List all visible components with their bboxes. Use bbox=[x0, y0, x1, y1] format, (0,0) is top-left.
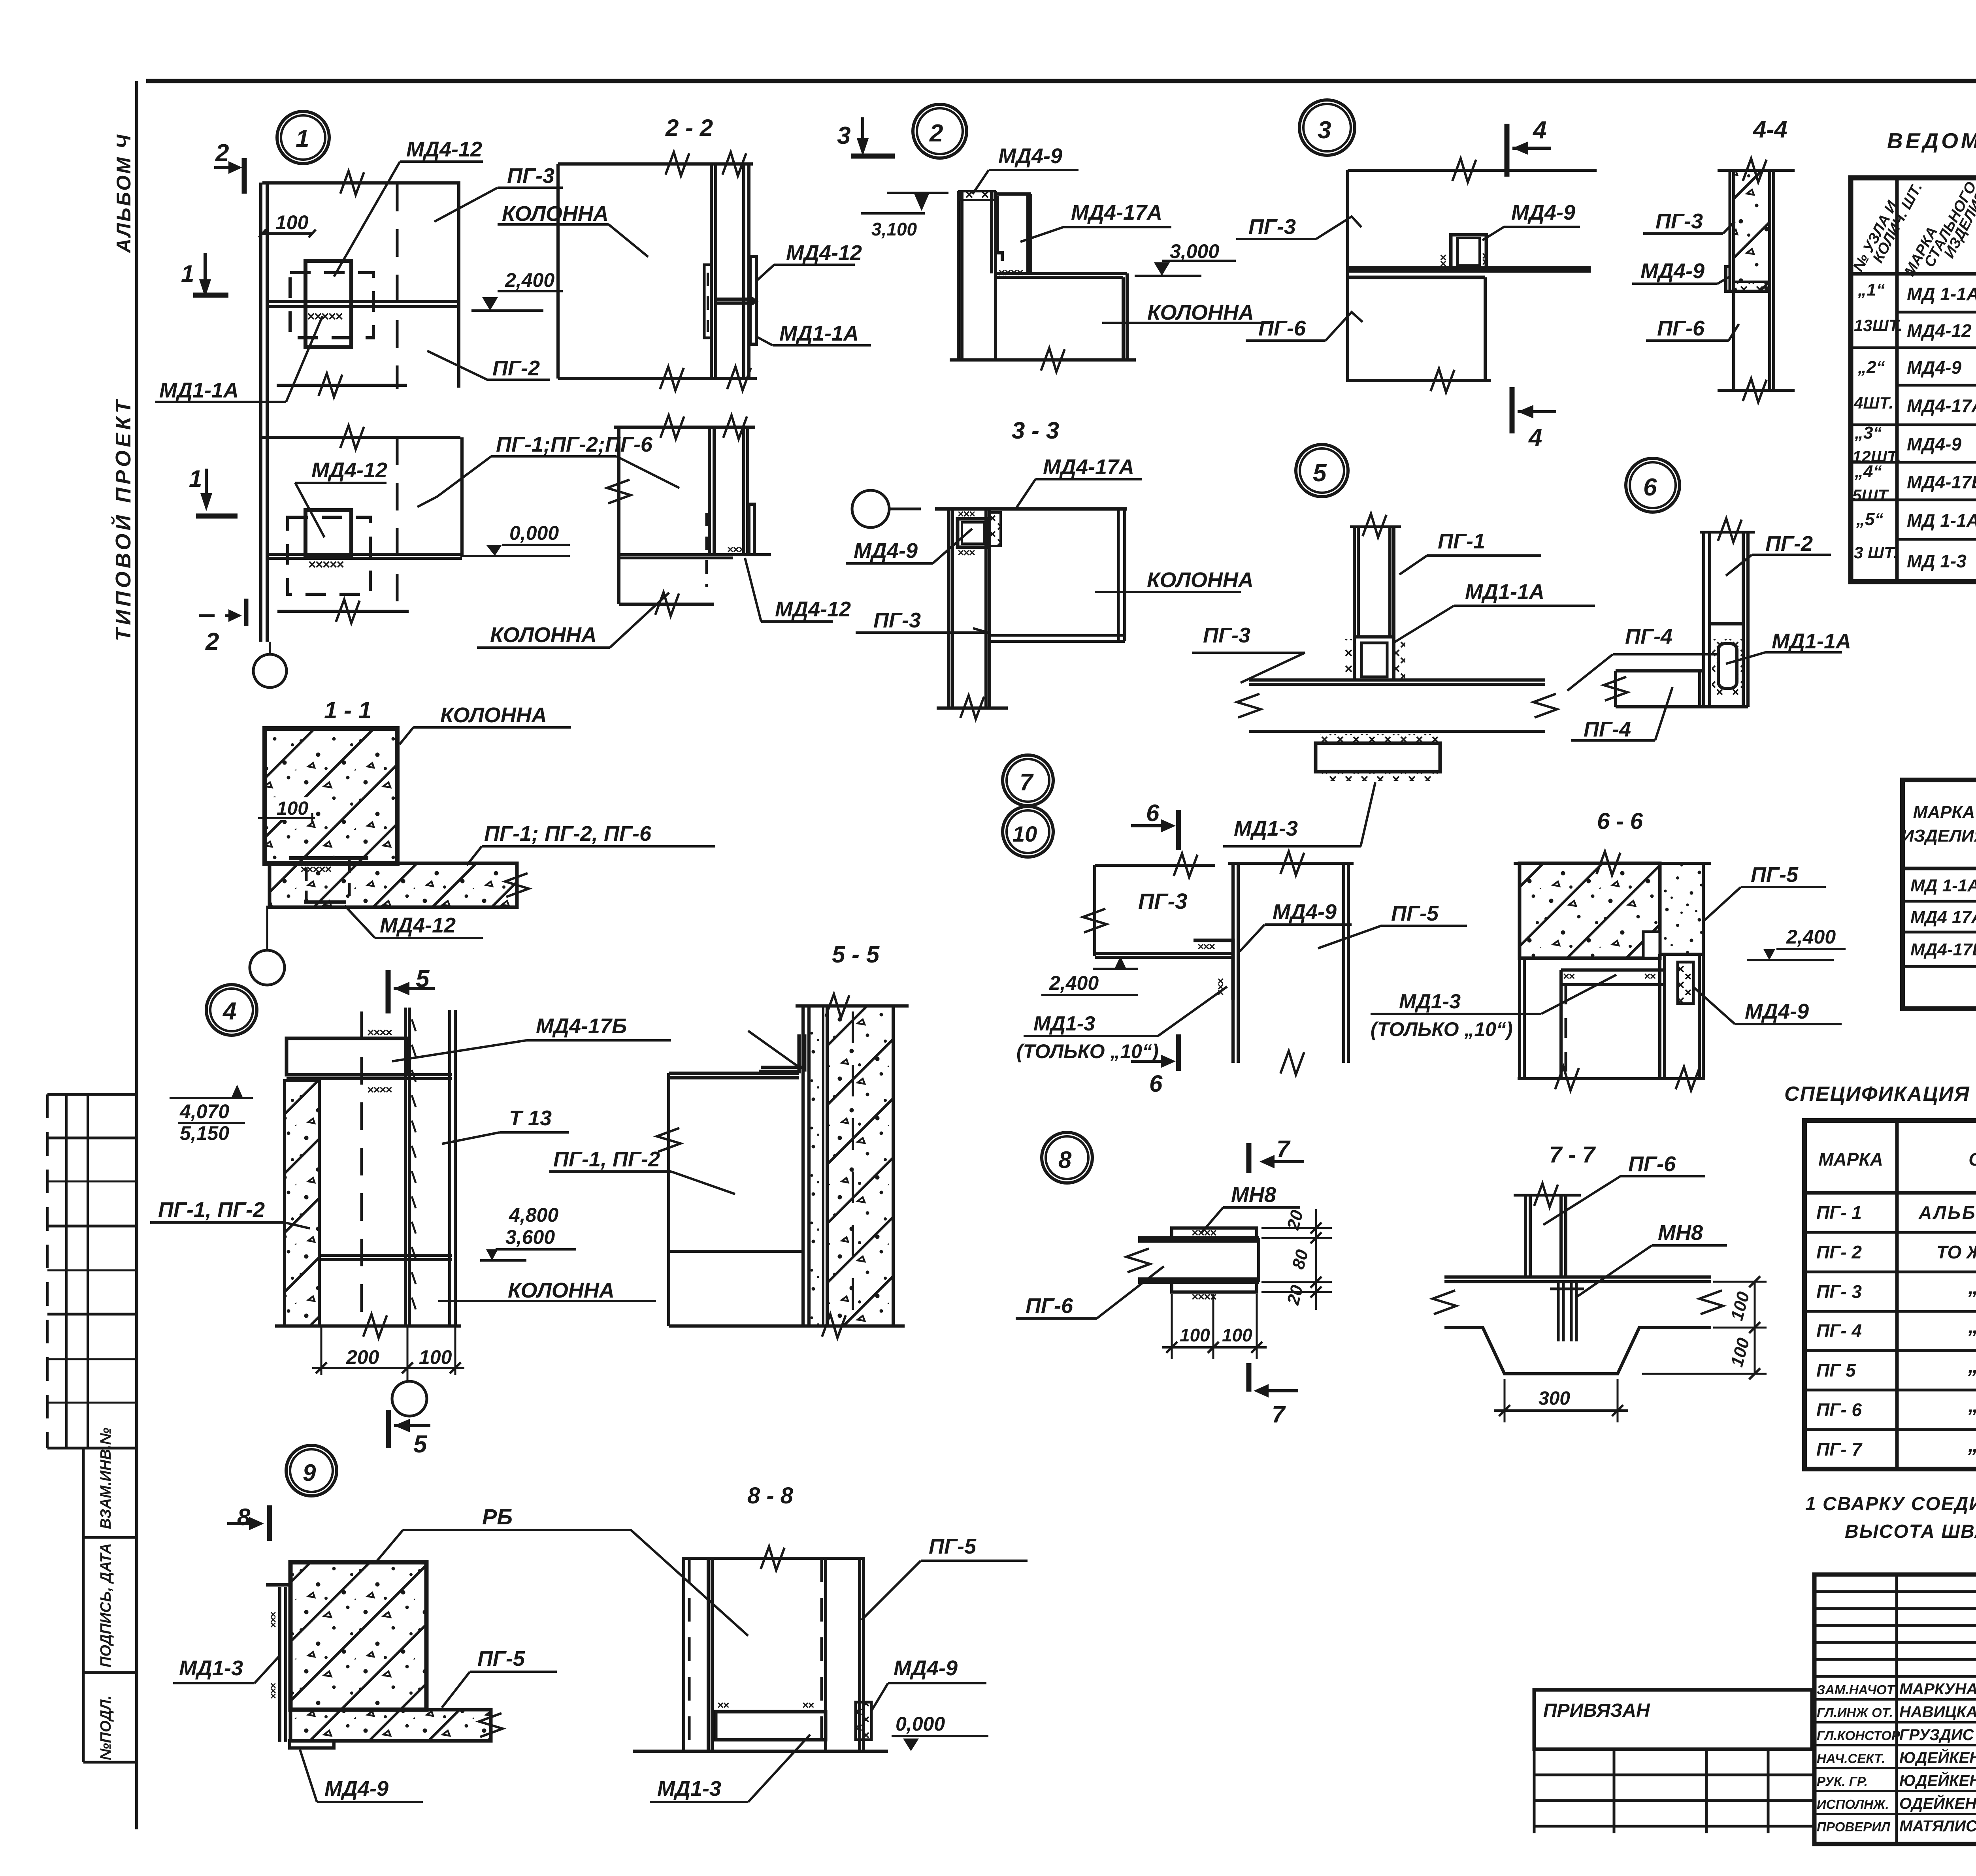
detail 3 joint mid lines bbox=[1348, 266, 1591, 269]
svg-text:4: 4 bbox=[1532, 117, 1546, 144]
svg-text:ИЗДЕЛИЯ: ИЗДЕЛИЯ bbox=[1901, 826, 1976, 846]
svg-text:МД4-12: МД4-12 bbox=[406, 137, 482, 161]
svg-text:„: „ bbox=[1968, 1354, 1976, 1377]
svg-text:ОДЕЙКЕНЕ: ОДЕЙКЕНЕ bbox=[1899, 1794, 1976, 1812]
svg-text:МАРКУНАС: МАРКУНАС bbox=[1899, 1680, 1976, 1698]
svg-text:8 - 8: 8 - 8 bbox=[747, 1483, 794, 1509]
detail 5 panel top break bbox=[1350, 526, 1401, 528]
svg-text:5: 5 bbox=[1313, 460, 1327, 487]
svg-text:×××: ××× bbox=[267, 1683, 279, 1699]
6-6 concrete block (hatched) bbox=[1520, 863, 1660, 958]
svg-text:МД4-17А: МД4-17А bbox=[1907, 396, 1976, 416]
svg-text:КОЛОННА: КОЛОННА bbox=[1147, 301, 1254, 324]
svg-text:МАРКА: МАРКА bbox=[1913, 802, 1975, 822]
detail 1 wall axis (dashed) bbox=[396, 184, 399, 389]
svg-text:ПГ- 7: ПГ- 7 bbox=[1816, 1439, 1863, 1460]
detail 9 node circle bbox=[286, 1445, 337, 1496]
detail 5 underslab channel МД1-3 bbox=[1320, 734, 1439, 743]
svg-text:6: 6 bbox=[1643, 474, 1657, 501]
svg-text:ПГ-1; ПГ-2, ПГ-6: ПГ-1; ПГ-2, ПГ-6 bbox=[484, 822, 652, 846]
svg-text:8: 8 bbox=[1058, 1147, 1072, 1173]
svg-text:ПГ-3: ПГ-3 bbox=[1138, 889, 1187, 914]
detail 9 concrete block (hatched) bbox=[290, 1562, 426, 1710]
2-2 wall top edge bbox=[558, 162, 753, 166]
svg-text:1 - 1: 1 - 1 bbox=[324, 697, 371, 723]
detail 5 slab left break bbox=[1237, 694, 1261, 718]
7-7 slab top lines bbox=[1444, 1275, 1711, 1279]
detail 1 panel bottom edge bbox=[277, 384, 407, 387]
4-4 wall top line bbox=[1718, 169, 1795, 172]
detail 4 top beam bbox=[287, 1038, 407, 1075]
svg-text:КОЛОННА: КОЛОННА bbox=[508, 1279, 615, 1302]
table 2 row lines bbox=[1902, 900, 1976, 903]
svg-text:10: 10 bbox=[1013, 821, 1037, 846]
detail 1 lower panel right edge bbox=[460, 437, 464, 557]
svg-text:МД4-12: МД4-12 bbox=[380, 914, 456, 937]
table 1 row lines bbox=[1897, 311, 1976, 314]
svg-text:ПГ-4: ПГ-4 bbox=[1584, 718, 1631, 741]
svg-text:ТО ЖЕ: ТО ЖЕ bbox=[1936, 1242, 1976, 1262]
detail 1 fixing plate hidden outline (dashed) bbox=[290, 273, 373, 338]
svg-text:МД4-12: МД4-12 bbox=[775, 597, 851, 621]
2-2 wall left edge bbox=[556, 164, 560, 379]
8-8 ground line bbox=[633, 1750, 888, 1753]
svg-text:4-4: 4-4 bbox=[1753, 116, 1787, 143]
svg-text:МД 1-1А: МД 1-1А bbox=[1907, 284, 1976, 304]
svg-text:МД1-1А: МД1-1А bbox=[1772, 629, 1851, 653]
6-6 top line bbox=[1514, 862, 1711, 865]
7-7 anchor bars МН8 bbox=[1557, 1282, 1560, 1341]
3-3 right bracket with weld bbox=[990, 512, 1001, 546]
svg-text:ПГ-1, ПГ-2: ПГ-1, ПГ-2 bbox=[553, 1147, 660, 1171]
svg-text:ПГ-3: ПГ-3 bbox=[1655, 209, 1703, 233]
5-5 panel top edge (double) bbox=[669, 1072, 799, 1075]
2-2 lower: floor line bbox=[620, 553, 771, 556]
svg-text:МД1-3: МД1-3 bbox=[1399, 990, 1461, 1013]
svg-text:ВЗАМ.ИНВ.№: ВЗАМ.ИНВ.№ bbox=[98, 1428, 114, 1529]
svg-text:МД4-12: МД4-12 bbox=[1907, 320, 1972, 341]
svg-text:НАЧ.СЕКТ.: НАЧ.СЕКТ. bbox=[1817, 1751, 1885, 1766]
detail 10 node circle bbox=[1003, 806, 1053, 857]
svg-text:2 - 2: 2 - 2 bbox=[665, 115, 713, 141]
svg-text:3 - 3: 3 - 3 bbox=[1012, 417, 1059, 444]
svg-text:7 - 7: 7 - 7 bbox=[1549, 1142, 1596, 1168]
detail 3 wall left edge bbox=[1346, 170, 1349, 382]
4-4 bottom line bbox=[1718, 389, 1795, 392]
svg-text:ПГ-2: ПГ-2 bbox=[492, 356, 540, 380]
8-8 МД4-9 right bracket bbox=[856, 1702, 871, 1740]
attachment grid cells bbox=[1534, 1748, 1814, 1751]
svg-text:АЛЬБОМ II: АЛЬБОМ II bbox=[1918, 1202, 1976, 1223]
detail 5 slab right break bbox=[1533, 694, 1557, 718]
svg-text:КОЛОННА: КОЛОННА bbox=[490, 623, 597, 647]
svg-text:9: 9 bbox=[303, 1460, 316, 1486]
8-8 panel top line bbox=[682, 1557, 865, 1560]
detail 1 lower joint mid line (double) bbox=[267, 553, 462, 556]
svg-text:МД1-1А: МД1-1А bbox=[779, 322, 859, 345]
svg-text:МАТЯЛИС: МАТЯЛИС bbox=[1899, 1818, 1976, 1835]
svg-text:5ШТ.: 5ШТ. bbox=[1852, 486, 1892, 505]
2-2 tee connection bar bbox=[716, 298, 754, 301]
margin cell ВЗАМ.ИНВ.№ bbox=[82, 1448, 85, 1762]
detail 7 МД4-9 angle bbox=[1194, 940, 1233, 1000]
svg-text:×××: ××× bbox=[1197, 940, 1215, 953]
svg-text:×××: ××× bbox=[958, 508, 975, 520]
table 3 outer frame bbox=[1804, 1121, 1976, 1469]
dimension 100 (1-1) bbox=[271, 797, 312, 820]
svg-text:100: 100 bbox=[1222, 1325, 1252, 1345]
svg-text:МД4-9: МД4-9 bbox=[1511, 201, 1575, 224]
svg-text:2: 2 bbox=[929, 120, 943, 147]
section mark 1 (lower, arrow down) bbox=[205, 469, 208, 500]
svg-text:ИСПОЛНЖ.: ИСПОЛНЖ. bbox=[1817, 1797, 1889, 1812]
detail 6 МД1-1А plate with weld ring bbox=[1712, 639, 1743, 696]
svg-text:×××: ××× bbox=[267, 1612, 279, 1628]
detail 5 joint plate with welds bbox=[1344, 639, 1356, 680]
svg-text:7: 7 bbox=[1272, 1401, 1286, 1428]
6-6 МД1-3 channel bbox=[1561, 968, 1665, 972]
svg-text:2,400: 2,400 bbox=[505, 269, 554, 291]
svg-text:××××: ×××× bbox=[367, 1026, 392, 1039]
svg-text:××: ×× bbox=[1437, 254, 1450, 267]
detail 4 panel anchor dashes bbox=[412, 1019, 416, 1031]
table 3 header line bbox=[1804, 1191, 1976, 1195]
svg-text:„3“: „3“ bbox=[1854, 423, 1882, 443]
svg-text:100: 100 bbox=[1180, 1325, 1210, 1345]
detail 1 node circle bbox=[277, 111, 329, 164]
svg-text:МД 1-1А: МД 1-1А bbox=[1910, 876, 1976, 895]
detail 6 panel inner joint line bbox=[1710, 622, 1743, 625]
svg-text:Т 13: Т 13 bbox=[509, 1106, 552, 1130]
detail 1 joint mid line (double) bbox=[267, 300, 459, 303]
svg-text:„1“: „1“ bbox=[1857, 280, 1885, 299]
svg-text:ПОДПИСЬ, ДАТА: ПОДПИСЬ, ДАТА bbox=[98, 1543, 114, 1667]
detail 6 node circle bbox=[1626, 458, 1680, 512]
svg-text:ПГ-5: ПГ-5 bbox=[1751, 863, 1799, 887]
detail 3 wall top edge bbox=[1348, 169, 1597, 172]
detail 3 lower wall bottom edge bbox=[1348, 379, 1491, 382]
svg-text:ПГ-5: ПГ-5 bbox=[929, 1535, 977, 1558]
detail 2 column ledge top (double) bbox=[996, 272, 1127, 275]
detail 2 panel ПГ-3 (vertical, double edges) bbox=[957, 191, 960, 360]
svg-text:(ТОЛЬКО „10“): (ТОЛЬКО „10“) bbox=[1371, 1018, 1513, 1040]
5-5 wall: concrete strip (hatched) bbox=[827, 1006, 893, 1326]
svg-text:№ПОДЛ.: №ПОДЛ. bbox=[98, 1695, 114, 1760]
detail 8 bottom plate bbox=[1172, 1282, 1257, 1292]
table 3 column lines bbox=[1895, 1121, 1899, 1469]
svg-text:4: 4 bbox=[1528, 424, 1542, 451]
svg-text:×××××: ××××× bbox=[308, 557, 344, 572]
detail 4 vertical panel edges bbox=[360, 1011, 363, 1328]
detail 4 node circle bbox=[206, 985, 257, 1035]
3-3 top edge line bbox=[935, 507, 1127, 511]
2-2 wall bottom edge bbox=[558, 377, 757, 380]
svg-text:ОБОЗНАЧЕНИЕ: ОБОЗНАЧЕНИЕ bbox=[1968, 1149, 1976, 1170]
detail 2 МД4-17А angle bbox=[997, 196, 1002, 261]
svg-text:МД 1-1А: МД 1-1А bbox=[1907, 510, 1976, 531]
svg-text:0,000: 0,000 bbox=[896, 1713, 945, 1735]
svg-text:1: 1 bbox=[296, 125, 309, 153]
svg-text:100: 100 bbox=[275, 211, 309, 234]
svg-text:2: 2 bbox=[205, 628, 219, 655]
svg-text:ЮДЕЙКЕНЕ: ЮДЕЙКЕНЕ bbox=[1899, 1748, 1976, 1767]
svg-text:МД1-1А: МД1-1А bbox=[1465, 580, 1544, 604]
svg-text:100: 100 bbox=[419, 1346, 452, 1368]
detail 9 bottom panel strip ПГ-5 bbox=[290, 1710, 491, 1741]
axis circle (3-3) bbox=[852, 490, 889, 527]
svg-text:4,070: 4,070 bbox=[179, 1100, 229, 1123]
svg-text:5,150: 5,150 bbox=[180, 1122, 229, 1144]
detail 1 lower panel top edge bbox=[262, 436, 460, 439]
detail 4 bottom break line bbox=[275, 1324, 461, 1328]
svg-text:××: ×× bbox=[1479, 252, 1492, 266]
svg-text:ЗАМ.НАЧОТ: ЗАМ.НАЧОТ bbox=[1817, 1682, 1896, 1697]
axis circle (1-1) bbox=[250, 950, 285, 985]
2-2 lower: top line bbox=[614, 426, 755, 429]
table 3 row lines bbox=[1804, 1231, 1976, 1234]
2-2 panel edges (double pair) bbox=[710, 164, 713, 379]
svg-text:КОЛОННА: КОЛОННА bbox=[440, 703, 547, 727]
svg-text:КОЛОННА: КОЛОННА bbox=[1147, 568, 1254, 592]
svg-text:ПГ-3: ПГ-3 bbox=[873, 608, 921, 632]
svg-text:7: 7 bbox=[1276, 1136, 1291, 1162]
margin stamp grid bbox=[47, 1093, 137, 1096]
svg-text:ВЫСОТА ШВА δ = 5 ММ.: ВЫСОТА ШВА δ = 5 ММ. bbox=[1845, 1521, 1976, 1542]
detail 8 top plate bbox=[1172, 1228, 1257, 1238]
sheet frame top border bbox=[146, 79, 1976, 83]
svg-text:МД4-17Б: МД4-17Б bbox=[536, 1014, 627, 1038]
detail 8 bottom dimensions 100/100 bbox=[1171, 1294, 1173, 1359]
svg-text:ПГ- 3: ПГ- 3 bbox=[1816, 1281, 1862, 1302]
svg-text:МД1-1А: МД1-1А bbox=[159, 379, 239, 402]
svg-text:ПГ-1: ПГ-1 bbox=[1438, 529, 1485, 553]
table 1 column lines bbox=[1895, 178, 1899, 582]
svg-text:××: ×× bbox=[1563, 970, 1575, 982]
svg-text:„: „ bbox=[1968, 1315, 1976, 1338]
svg-text:МД4-9: МД4-9 bbox=[894, 1656, 958, 1680]
svg-text:××××: ×××× bbox=[367, 1083, 392, 1096]
svg-text:МД1-3: МД1-3 bbox=[1033, 1012, 1095, 1035]
svg-text:3: 3 bbox=[837, 122, 850, 149]
6-6 panel verticals below bbox=[1518, 958, 1521, 1079]
svg-text:МД4-9: МД4-9 bbox=[1907, 434, 1961, 454]
svg-text:0,000: 0,000 bbox=[509, 522, 559, 544]
svg-text:ПГ- 6: ПГ- 6 bbox=[1816, 1399, 1862, 1420]
1-1 fixing plate lines bbox=[289, 856, 368, 860]
table 1 outer frame bbox=[1851, 178, 1976, 582]
detail 6 panel top break bbox=[1700, 531, 1755, 534]
detail 7 panel ПГ-3 (plan) bbox=[1095, 864, 1215, 867]
table 2 header lines bbox=[1902, 867, 1976, 870]
detail 3 lower wall ПГ-6 right edge bbox=[1484, 277, 1487, 380]
svg-text:××: ×× bbox=[1644, 970, 1656, 982]
1-1 panel strip (hatched) bbox=[270, 863, 517, 907]
svg-text:МД4-9: МД4-9 bbox=[1907, 357, 1961, 378]
detail 4 slab joint line bbox=[321, 1254, 452, 1257]
5-5 wall bottom line bbox=[796, 1324, 905, 1328]
svg-text:МД1-3: МД1-3 bbox=[179, 1656, 243, 1680]
svg-text:ТИПОВОЙ ПРОЕКТ: ТИПОВОЙ ПРОЕКТ bbox=[111, 397, 135, 641]
svg-text:МД4-9: МД4-9 bbox=[854, 539, 918, 563]
svg-text:3,600: 3,600 bbox=[505, 1226, 555, 1248]
svg-text:ПГ- 2: ПГ- 2 bbox=[1816, 1242, 1862, 1262]
svg-text:МД4-17А: МД4-17А bbox=[1043, 455, 1134, 479]
svg-text:××: ×× bbox=[717, 1699, 729, 1711]
svg-text:КОЛОННА: КОЛОННА bbox=[502, 202, 609, 226]
detail 8 side dimensions 20/80/20 bbox=[1261, 1227, 1332, 1229]
2-2 lower: panel edges bbox=[708, 427, 711, 555]
sheet frame left border bbox=[135, 81, 138, 1829]
svg-text:МД4-9: МД4-9 bbox=[1745, 1000, 1809, 1023]
svg-text:ПГ-3: ПГ-3 bbox=[507, 164, 554, 188]
svg-text:ПГ-2: ПГ-2 bbox=[1765, 532, 1813, 556]
2-2 lower: hidden bracket (dashed) bbox=[705, 513, 708, 587]
svg-text:„4“: „4“ bbox=[1854, 462, 1882, 481]
svg-text:ВЕДОМОСТЬ МЕТАЛЛИЧЕСКИХ ИЗ: ВЕДОМОСТЬ МЕТАЛЛИЧЕСКИХ ИЗДЕЛИЙ НА ОДИН … bbox=[1887, 128, 1976, 153]
5-5 wall: plaster strip bbox=[801, 1006, 805, 1326]
svg-text:„: „ bbox=[1968, 1276, 1976, 1299]
6-6 МД4-9 right bracket bbox=[1678, 962, 1693, 1004]
svg-text:100: 100 bbox=[277, 798, 308, 819]
svg-text:2: 2 bbox=[215, 139, 229, 167]
2-2 left bracket plate (dashed) bbox=[704, 265, 711, 338]
detail 5 slab top line bbox=[1249, 678, 1545, 682]
svg-text:ПГ-1;ПГ-2;ПГ-6: ПГ-1;ПГ-2;ПГ-6 bbox=[496, 433, 653, 456]
1-1 column (hatched) bbox=[265, 729, 397, 863]
detail 5 node circle bbox=[1296, 445, 1348, 497]
7-7 panel verticals bbox=[1524, 1195, 1527, 1277]
3-3 bottom break bbox=[937, 706, 1008, 710]
detail 7 wall ПГ-5 (vertical) bbox=[1231, 863, 1235, 1063]
svg-text:МН8: МН8 bbox=[1658, 1221, 1703, 1245]
detail 5 vertical panel edges bbox=[1353, 527, 1356, 637]
3-3 panel edges (double) bbox=[947, 509, 950, 707]
svg-text:ПГ 5: ПГ 5 bbox=[1816, 1360, 1856, 1381]
6-6 bottom break line bbox=[1518, 1077, 1705, 1080]
svg-text:МД4-9: МД4-9 bbox=[324, 1777, 388, 1801]
svg-text:13ШТ.: 13ШТ. bbox=[1854, 316, 1903, 335]
5-5 panel left edge bbox=[667, 1073, 670, 1326]
2-2 lower: wall left edge bbox=[617, 427, 620, 604]
svg-text:5 - 5: 5 - 5 bbox=[832, 941, 880, 968]
svg-text:МД4-17А: МД4-17А bbox=[1071, 201, 1162, 224]
svg-text:6: 6 bbox=[1149, 1070, 1163, 1097]
axis circle (detail 4) bbox=[392, 1381, 427, 1416]
detail 2 node circle bbox=[913, 104, 967, 158]
2-2 lower: base angle МД4-12 bbox=[749, 504, 754, 555]
5-5 МД4-17Б angle bracket bbox=[759, 1034, 799, 1072]
svg-text:3: 3 bbox=[1318, 117, 1331, 144]
svg-text:РУК. ГР.: РУК. ГР. bbox=[1817, 1774, 1868, 1789]
8-8 panel verticals bbox=[682, 1558, 685, 1751]
svg-text:МД1-3: МД1-3 bbox=[1234, 817, 1298, 840]
4-4 hatched panel (upper) bbox=[1734, 170, 1770, 291]
svg-text:„: „ bbox=[1968, 1394, 1976, 1417]
svg-text:МД4-17Б: МД4-17Б bbox=[1910, 940, 1976, 959]
title block attachment grid (left, ПРИВЯЗАН) bbox=[1534, 1690, 1812, 1749]
6-6 right strip (plaster) bbox=[1660, 863, 1703, 954]
detail 5 slab bottom line bbox=[1249, 730, 1545, 733]
svg-text:200: 200 bbox=[346, 1346, 379, 1368]
detail 9 left angle МД1-3 bbox=[266, 1583, 290, 1587]
svg-text:ЮДЕЙКЕНЕ: ЮДЕЙКЕНЕ bbox=[1899, 1771, 1976, 1789]
3-3 fixing plate bbox=[958, 519, 988, 547]
detail 1 lower plan: left panel edge (double) bbox=[259, 437, 262, 642]
svg-text:ПГ-3: ПГ-3 bbox=[1203, 623, 1250, 647]
svg-text:ПГ-4: ПГ-4 bbox=[1625, 625, 1672, 648]
svg-text:2,400: 2,400 bbox=[1786, 926, 1836, 948]
detail 3 node circle bbox=[1299, 100, 1355, 155]
8-8 МД1-3 channel bbox=[716, 1712, 826, 1740]
detail 7 node circle bbox=[1003, 755, 1053, 806]
signature table bbox=[1814, 1575, 1976, 1844]
svg-text:300: 300 bbox=[1539, 1388, 1570, 1409]
svg-text:8: 8 bbox=[237, 1504, 251, 1530]
svg-text:×××: ××× bbox=[958, 546, 975, 559]
svg-text:„: „ bbox=[1968, 1433, 1976, 1456]
7-7 right dims 100/100 bbox=[1713, 1327, 1767, 1329]
detail 1 panel plan: left panel edge (double) bbox=[259, 183, 262, 642]
detail 1 fixing plate МД4-12 (solid) bbox=[305, 261, 351, 347]
svg-text:МД4-9: МД4-9 bbox=[1273, 900, 1337, 924]
svg-text:МД1-3: МД1-3 bbox=[657, 1777, 721, 1801]
4-4 bracket МД4-9 bbox=[1726, 267, 1734, 291]
svg-text:3,100: 3,100 bbox=[871, 219, 917, 239]
svg-text:ГРУЗДИС: ГРУЗДИС bbox=[1899, 1726, 1974, 1744]
3-3 column rectangle bbox=[1117, 509, 1120, 641]
svg-text:МД4-17Б: МД4-17Б bbox=[1907, 472, 1976, 492]
detail 9 bottom plate МД4-9 bbox=[290, 1741, 334, 1748]
detail 4 hatched wall strip bbox=[285, 1081, 319, 1326]
svg-text:3,000: 3,000 bbox=[1170, 240, 1219, 262]
svg-text:НАВИЦКАС: НАВИЦКАС bbox=[1899, 1703, 1976, 1721]
7-7 slab bottom with rib bbox=[1444, 1328, 1711, 1374]
svg-text:МН8: МН8 bbox=[1231, 1183, 1276, 1207]
detail 2 panel top cap weld bbox=[959, 191, 995, 200]
svg-text:МД4 17А: МД4 17А bbox=[1910, 908, 1976, 927]
svg-text:4,800: 4,800 bbox=[509, 1204, 558, 1226]
svg-text:МАРКА: МАРКА bbox=[1818, 1149, 1883, 1170]
svg-text:×××××: ××××× bbox=[307, 309, 343, 324]
table 1 header bottom line bbox=[1851, 272, 1976, 276]
2-2 lower: bottom edge bbox=[619, 603, 714, 606]
detail 2 column right edge (double) bbox=[1122, 277, 1125, 359]
table 2 outer frame bbox=[1902, 780, 1976, 1009]
svg-text:6: 6 bbox=[1146, 800, 1160, 826]
svg-text:ПРОВЕРИЛ: ПРОВЕРИЛ bbox=[1817, 1819, 1891, 1834]
svg-text:4: 4 bbox=[222, 998, 236, 1025]
svg-text:ПГ-6: ПГ-6 bbox=[1628, 1152, 1676, 1176]
detail 8 bar ПГ-6 bbox=[1138, 1236, 1259, 1239]
detail 3 fixing plate МД4-9 bbox=[1451, 235, 1486, 269]
svg-text:ПГ-5: ПГ-5 bbox=[1391, 902, 1439, 925]
5-5 panel bottom edge bbox=[669, 1324, 803, 1328]
svg-text:ПГ-1, ПГ-2: ПГ-1, ПГ-2 bbox=[158, 1198, 265, 1222]
5-5 wall top line bbox=[796, 1004, 909, 1008]
5-5 slab joint line bbox=[669, 1250, 803, 1253]
svg-text:МД4-12: МД4-12 bbox=[311, 458, 387, 482]
detail 6 horizontal panel ПГ-4 bbox=[1616, 669, 1704, 672]
detail 8 node circle bbox=[1042, 1132, 1092, 1183]
svg-text:АЛЬБОМ Ч: АЛЬБОМ Ч bbox=[113, 133, 135, 254]
label МД4-17Б leader (5-5) bbox=[748, 1031, 799, 1067]
2-2 right fixing plate МД4-12 bbox=[750, 256, 756, 344]
detail 6 vertical panel edges bbox=[1702, 532, 1705, 707]
svg-text:ПРИВЯЗАН: ПРИВЯЗАН bbox=[1543, 1700, 1650, 1721]
svg-text:3 ШТ.: 3 ШТ. bbox=[1854, 543, 1898, 562]
svg-text:СПЕЦИФИКАЦИЯ ЭЛЕМЕНТОВ, ЗАМА: СПЕЦИФИКАЦИЯ ЭЛЕМЕНТОВ, ЗАМАРКИРОВАННЫХ … bbox=[1784, 1083, 1976, 1106]
detail 1 panel top edge bbox=[262, 181, 460, 185]
